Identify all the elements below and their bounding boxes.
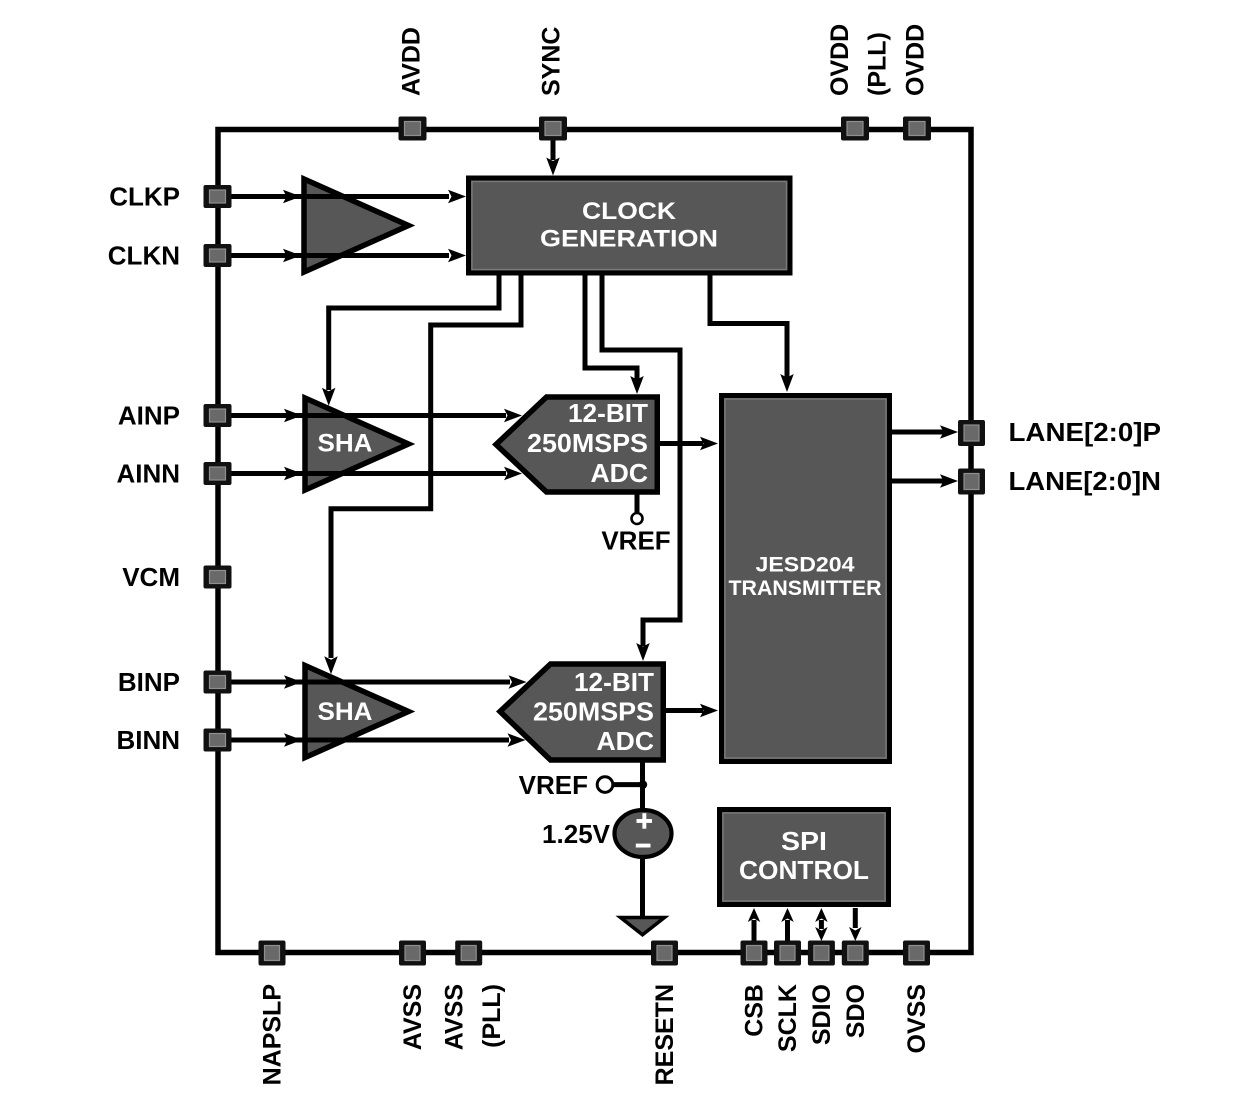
svg-text:VREF: VREF (601, 526, 670, 556)
svg-text:CONTROL: CONTROL (739, 855, 869, 885)
svg-text:CLKP: CLKP (109, 182, 180, 212)
svg-text:JESD204: JESD204 (756, 554, 855, 577)
svg-text:RESETN: RESETN (651, 984, 679, 1085)
svg-text:TRANSMITTER: TRANSMITTER (729, 577, 882, 600)
svg-text:OVSS: OVSS (903, 984, 931, 1053)
svg-text:1.25V: 1.25V (542, 819, 611, 849)
svg-text:SYNC: SYNC (538, 27, 566, 96)
svg-text:SHA: SHA (318, 698, 373, 726)
svg-text:AINN: AINN (116, 459, 180, 489)
svg-text:CLOCK: CLOCK (582, 198, 677, 225)
svg-text:ADC: ADC (591, 458, 649, 488)
svg-text:(PLL): (PLL) (478, 984, 506, 1048)
svg-text:ADC: ADC (597, 726, 655, 756)
svg-text:SPI: SPI (781, 826, 827, 856)
svg-text:SDO: SDO (842, 984, 870, 1038)
svg-text:12-BIT: 12-BIT (568, 398, 648, 428)
svg-text:OVDD: OVDD (826, 24, 854, 96)
svg-text:SDIO: SDIO (808, 984, 836, 1045)
svg-text:VREF: VREF (519, 770, 588, 800)
svg-text:250MSPS: 250MSPS (527, 428, 648, 458)
svg-text:CLKN: CLKN (108, 241, 180, 271)
svg-text:SCLK: SCLK (774, 984, 802, 1052)
svg-text:250MSPS: 250MSPS (533, 697, 654, 727)
svg-text:LANE[2:0]P: LANE[2:0]P (1009, 417, 1162, 447)
svg-text:OVDD: OVDD (902, 24, 930, 96)
svg-text:NAPSLP: NAPSLP (259, 984, 287, 1085)
svg-text:CSB: CSB (741, 984, 769, 1037)
svg-text:AVSS: AVSS (399, 984, 427, 1050)
svg-text:AVDD: AVDD (398, 27, 426, 96)
svg-text:GENERATION: GENERATION (540, 226, 718, 253)
svg-text:BINN: BINN (116, 725, 180, 755)
svg-text:12-BIT: 12-BIT (574, 667, 654, 697)
svg-text:(PLL): (PLL) (864, 32, 892, 96)
svg-text:AINP: AINP (118, 401, 180, 431)
svg-text:VCM: VCM (122, 562, 180, 592)
svg-text:AVSS: AVSS (441, 984, 469, 1050)
svg-text:BINP: BINP (118, 667, 180, 697)
svg-text:LANE[2:0]N: LANE[2:0]N (1009, 466, 1162, 496)
svg-text:SHA: SHA (318, 430, 373, 458)
